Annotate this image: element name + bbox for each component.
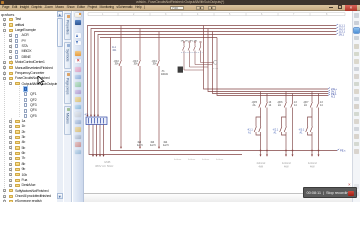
contactor K3 label: [299, 129, 305, 135]
svg-text:4kW: 4kW: [259, 167, 264, 169]
bus L1 right label: [339, 24, 346, 28]
svg-text:10A: 10A: [153, 63, 158, 66]
vertical tab strip: [64, 11, 73, 202]
svg-text:-W3: -W3: [150, 142, 155, 144]
svg-text:4x2.5: 4x2.5: [150, 145, 156, 147]
svg-text:2A: 2A: [278, 104, 281, 107]
wire bus N top: [98, 35, 336, 116]
bottom divider + bar: [84, 192, 352, 195]
svg-text:4x2.5: 4x2.5: [137, 145, 143, 147]
svg-text:4kW: 4kW: [284, 167, 289, 169]
svg-text:4x4mm2: 4x4mm2: [282, 163, 292, 165]
wire bus L3 top: [95, 32, 337, 116]
contactor K2 label: [273, 129, 279, 135]
svg-text:4x2.5: 4x2.5: [163, 145, 169, 147]
svg-text:1N.1: 1N.1: [339, 33, 345, 37]
svg-text:4x4mm: 4x4mm: [188, 159, 195, 161]
wire feeder QF1 drop: [119, 26, 121, 148]
wire F1 to control taps: [184, 63, 218, 71]
screen-recorder overlay: [348, 183, 351, 187]
breaker -QF6 group: [280, 92, 293, 155]
bus L2 right label: [339, 27, 346, 31]
frame column numbers: [102, 13, 328, 16]
wire bus 5 horizontal: [100, 37, 217, 39]
svg-text:4x4mm2: 4x4mm2: [257, 163, 267, 165]
node W1 label: [112, 46, 117, 52]
wire rail N bottom: [89, 125, 242, 155]
breaker F1 poles: [183, 43, 201, 71]
svg-text:2A: 2A: [304, 104, 307, 107]
right icon toolbar: [352, 11, 360, 202]
bus N right label: [339, 33, 345, 37]
rail stub labels: [174, 159, 223, 161]
svg-text:400VA: 400VA: [161, 73, 168, 76]
svg-text:-W2: -W2: [137, 142, 142, 144]
terminal strip X1: [86, 117, 107, 125]
tail arrowheads: [92, 155, 105, 157]
wire feeder QF2 drop: [138, 29, 140, 148]
transformer T1 label: [161, 70, 168, 76]
breaker -QF7 group: [306, 92, 319, 155]
motor/fan M1 circle: [212, 61, 218, 69]
terminal X1 label: [84, 113, 89, 117]
control bus right labels: [331, 87, 337, 99]
breaker F1 top terminals: [183, 41, 201, 43]
wire X1 tails: [93, 125, 104, 156]
svg-text:PE.x: PE.x: [340, 149, 346, 153]
feeder drop arrowheads: [120, 147, 160, 149]
fuse QF2 label: [133, 61, 139, 66]
svg-text:380V AC 50Hz: 380V AC 50Hz: [95, 164, 114, 168]
svg-text:14: 14: [320, 104, 323, 107]
svg-text:4x4mm2: 4x4mm2: [308, 163, 318, 165]
load label group 1: [257, 163, 267, 169]
svg-text:14: 14: [294, 104, 297, 107]
wire control tap 4: [217, 38, 328, 96]
svg-text:-W1: -W1: [112, 49, 117, 52]
svg-text:10A: 10A: [115, 63, 120, 66]
svg-text:A1: A1: [274, 131, 278, 134]
wire feeder QF3 drop: [157, 32, 159, 148]
schematic canvas: [84, 11, 352, 202]
svg-text:4x4mm: 4x4mm: [174, 159, 181, 161]
tree scrollbar: [57, 11, 64, 202]
mouse cursor: [37, 76, 45, 86]
wire control tap 3: [213, 32, 329, 94]
project tree panel: [0, 11, 63, 202]
breaker F1 labels: [181, 41, 199, 43]
wire bus L1 top: [88, 26, 337, 116]
wires into X1 arrowheads: [87, 115, 100, 117]
svg-text:4x4mm: 4x4mm: [216, 159, 223, 161]
fuse QF1 label: [114, 61, 120, 66]
svg-text:10A: 10A: [134, 63, 139, 66]
cable W3 label: [150, 142, 156, 147]
rail PE right label: [337, 149, 339, 151]
bus L3 right label: [339, 30, 346, 34]
contactor K1 label: [247, 129, 253, 135]
left icon toolbar: [73, 11, 85, 202]
breaker -QF5 group: [254, 92, 267, 155]
supply note text: [95, 160, 114, 168]
svg-text:N.2: N.2: [331, 95, 336, 99]
svg-text:A1: A1: [300, 131, 304, 134]
svg-text:14: 14: [269, 104, 272, 107]
dashed interlock line: [181, 52, 203, 54]
load label group 2: [282, 163, 292, 169]
load label group 3: [308, 163, 318, 169]
transformer T1 body: [178, 67, 183, 73]
svg-text:A1: A1: [248, 131, 252, 134]
wire bus PE wrap to bottom rail: [111, 38, 338, 151]
wire control tap 1: [204, 26, 329, 90]
svg-text:4x4mm: 4x4mm: [202, 159, 209, 161]
svg-text:-W4: -W4: [163, 142, 168, 144]
menu bar: [0, 5, 360, 12]
wire bus L2 top: [91, 29, 336, 116]
fuse QF3 label: [152, 61, 158, 66]
cable W2 label: [137, 142, 143, 147]
svg-text:4kW: 4kW: [310, 167, 315, 169]
page frame top ruler: [88, 13, 345, 16]
cable W4 label: [163, 142, 169, 147]
bus arrows right: [336, 24, 338, 35]
wire control tap 2: [208, 29, 328, 92]
title bar: [0, 0, 360, 5]
svg-text:2A: 2A: [253, 104, 256, 107]
